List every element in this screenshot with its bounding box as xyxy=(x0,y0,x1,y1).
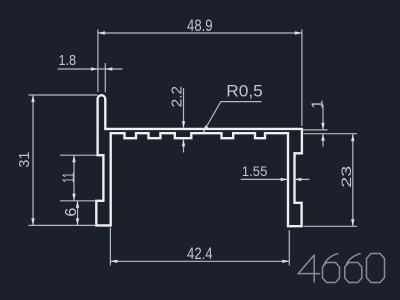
arrow 48.9 right xyxy=(295,31,302,34)
svg-text:48.9: 48.9 xyxy=(187,17,213,35)
arrow 2.2 bottom xyxy=(182,139,185,146)
dim 23 line xyxy=(352,134,354,226)
arrow 1 bottom xyxy=(321,134,324,141)
svg-text:1: 1 xyxy=(310,100,327,109)
arrow 1.55 left xyxy=(281,178,288,181)
dim 2.2 line xyxy=(183,88,185,153)
svg-text:1.55: 1.55 xyxy=(242,164,268,179)
arrow 1 top xyxy=(321,123,324,130)
arrow 42.4 right xyxy=(282,260,289,263)
arrow 1.8 right xyxy=(105,67,112,70)
arrow 6 bottom xyxy=(76,218,79,225)
dim 1 extension lines xyxy=(303,130,358,134)
part number digit 4 xyxy=(298,255,319,282)
arrow 11 bottom xyxy=(72,194,75,201)
dim 23 bottom extension line xyxy=(304,225,358,227)
svg-text:6: 6 xyxy=(63,208,80,217)
part number digit 0 xyxy=(367,254,385,283)
dim 6 line xyxy=(77,201,79,226)
svg-text:2.2: 2.2 xyxy=(170,86,186,108)
dim 48.9 extension lines xyxy=(98,30,302,127)
dim 31 extension lines xyxy=(29,95,98,225)
arrow 23 bottom xyxy=(351,219,354,226)
dim 1.8 line xyxy=(58,68,123,70)
dim 1 line xyxy=(322,105,324,147)
dim 1.55 line xyxy=(241,178,310,180)
arrow 11 top xyxy=(72,155,75,162)
dim 48.9 line xyxy=(98,32,302,34)
arrow 1.55 right xyxy=(294,178,301,181)
arrow 2.2 top xyxy=(182,121,185,128)
svg-text:31: 31 xyxy=(17,152,33,168)
svg-text:R0,5: R0,5 xyxy=(226,82,263,100)
arrow 6 top xyxy=(76,201,79,208)
part number digit 6 (first) xyxy=(324,254,338,265)
arrow R0,5 xyxy=(203,125,208,132)
arrow 42.4 left xyxy=(110,260,117,263)
arrow 1.8 left xyxy=(91,67,98,70)
svg-text:23: 23 xyxy=(338,166,354,188)
svg-text:42.4: 42.4 xyxy=(187,245,213,263)
profile outline 4660 cross-section xyxy=(96,95,302,226)
dim 31 line xyxy=(32,95,34,225)
arrow 48.9 left xyxy=(98,31,105,34)
svg-text:1.8: 1.8 xyxy=(59,52,77,69)
arrow 31 top xyxy=(31,95,34,102)
dim 11 line xyxy=(73,155,75,201)
dim 1.8 extension lines xyxy=(104,63,106,92)
svg-text:11: 11 xyxy=(60,172,78,183)
dim 42.4 line xyxy=(110,260,289,262)
part number digit 6 (second) xyxy=(346,254,360,265)
dim 42.4 extension lines xyxy=(110,228,289,266)
dim 11 extension lines xyxy=(60,155,97,201)
arrow 23 top xyxy=(351,134,354,141)
leader R0,5 xyxy=(203,102,261,133)
arrow 31 bottom xyxy=(31,218,34,225)
